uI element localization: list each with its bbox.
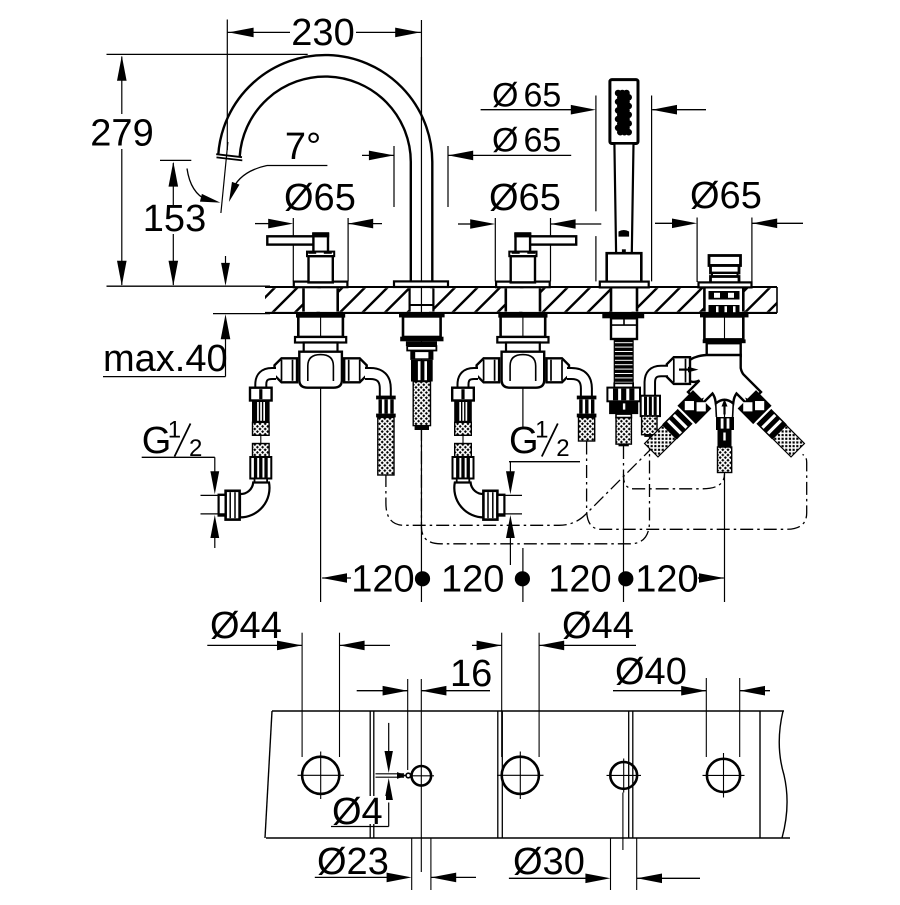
deck hole cut-out [704, 288, 743, 311]
center line valve 1 [320, 313, 322, 602]
plan strip joint lines 2 [497, 711, 499, 838]
pilot hole O4 [406, 773, 411, 778]
valve cap body [511, 256, 535, 282]
valve 1 right port hex nut [344, 358, 367, 382]
hand shower handle button [619, 230, 630, 237]
valve cap band [307, 252, 334, 257]
valve 1 left lower hex [250, 457, 271, 479]
valve 2 left elbow [463, 374, 478, 390]
hand shower hose braid [616, 418, 631, 445]
svg-text:120: 120 [635, 559, 698, 601]
hole 2 O23 [412, 766, 432, 786]
plan strip right break wavy line [779, 711, 787, 838]
spout centre line inside tube [420, 57, 422, 282]
deck hole cut-out [611, 288, 637, 311]
spout flex hose braid [413, 382, 430, 426]
diverter centre union nut [716, 417, 734, 430]
diverter left branch flow arrow [696, 395, 707, 406]
valve 2 G1/2 elbow [454, 483, 483, 518]
svg-text:Ø65: Ø65 [690, 175, 762, 217]
hand shower threaded tail (thread) [614, 339, 633, 383]
diverter left port hose braid [642, 416, 657, 435]
angle 7 degrees arc right [232, 166, 268, 193]
center line diverter [724, 313, 726, 602]
deck mounting surface (hatched section) [265, 288, 777, 312]
valve cap band [509, 252, 536, 257]
svg-text:230: 230 [291, 12, 354, 54]
svg-text:1: 1 [535, 417, 548, 444]
svg-text:Ø4: Ø4 [332, 791, 383, 833]
valve escutcheon [294, 282, 348, 288]
valve 1 G1/2 elbow [240, 483, 269, 518]
valve mounting nut flange [295, 337, 346, 343]
svg-text:Ø40: Ø40 [615, 651, 687, 693]
svg-text:1: 1 [168, 417, 181, 444]
dimension max.40 upper arrow [225, 256, 227, 266]
plan strip top edge [272, 710, 784, 712]
svg-text:Ø: Ø [492, 77, 518, 115]
spout supply nipple hex [411, 360, 433, 382]
svg-text:120: 120 [351, 559, 414, 601]
diverter left branch braided hose [645, 425, 677, 457]
svg-text:16: 16 [450, 653, 492, 695]
center line valve 2 [522, 388, 524, 428]
svg-text:65: 65 [524, 77, 562, 115]
valve mounting nut flange [497, 337, 548, 343]
diverter body neck [707, 343, 741, 356]
hose braided section [378, 417, 394, 475]
valve body [502, 352, 545, 388]
diverter knob [709, 256, 741, 266]
svg-text:Ø65: Ø65 [489, 177, 561, 219]
valve lever neck [313, 234, 328, 252]
valve shank centre line [522, 318, 524, 338]
valve 2 left port hex nut [477, 358, 500, 382]
spout escutcheon extension lines [393, 146, 395, 207]
valve 2 left connection chain [452, 388, 474, 401]
valve 2 left lower hex [453, 457, 474, 479]
hole 4 centre line lower [622, 793, 624, 851]
hole 2 centre line [420, 679, 422, 872]
center line spout [420, 20, 422, 602]
diverter shank thread in deck section [709, 291, 740, 300]
valve mounting shank [498, 313, 547, 317]
diverter body [684, 355, 761, 405]
hand shower extension lines [595, 96, 597, 212]
angle 7 degrees leader [267, 165, 327, 167]
diverter left port flow arrow [688, 367, 699, 373]
dimension 279 top reference line [107, 53, 308, 55]
diverter right branch braided hose [773, 425, 805, 457]
plan strip right straight joint [759, 711, 761, 838]
valve escutcheon [496, 282, 550, 288]
valve 1 left hose braid lower [253, 444, 270, 458]
hose routing spout to diverter left port [421, 430, 649, 544]
hand shower holder base plate [600, 282, 649, 288]
hand shower spray face dots [615, 90, 622, 97]
center line hand shower [623, 474, 625, 602]
plan strip left break line [265, 711, 272, 838]
valve 1 left ribbed adapter [252, 401, 270, 423]
deck hole cut-out [506, 288, 540, 311]
plan strip joint lines 1 [369, 711, 371, 838]
spout escutcheon [394, 281, 448, 287]
valve lever bar [528, 236, 576, 244]
valve 1 right elbow [365, 374, 385, 397]
diverter left branch union nut [677, 390, 711, 424]
svg-text:120: 120 [441, 559, 504, 601]
valve 1 left hose link line [260, 435, 262, 443]
diverter mounting shank [700, 313, 749, 317]
valve lever neck [516, 234, 531, 252]
svg-text:279: 279 [90, 113, 153, 155]
valve 2 G1/2 threaded end [483, 491, 497, 520]
deck bottom extension line (left) [213, 313, 270, 315]
hand shower head [610, 80, 638, 144]
svg-text:120: 120 [548, 559, 611, 601]
diverter mounting flange [703, 339, 746, 343]
valve 2 right port hex nut [547, 358, 570, 382]
hose coupling nut [376, 396, 396, 400]
valve body neck [506, 343, 540, 352]
svg-text:153: 153 [143, 198, 206, 240]
svg-text:Ø30: Ø30 [513, 841, 585, 883]
dimension row 120 spacing [322, 577, 351, 579]
dimension O4 pilot hole [376, 773, 405, 775]
diverter escutcheon [699, 282, 752, 287]
spout hose end [415, 426, 429, 430]
svg-text:7°: 7° [285, 126, 321, 168]
svg-text:2: 2 [556, 435, 569, 462]
diverter right branch flow arrow [743, 395, 754, 406]
svg-text:2: 2 [189, 435, 202, 462]
hand shower hose nut [607, 388, 640, 402]
hose braided section [579, 417, 595, 441]
valve 2 left hose braid lower [455, 444, 472, 458]
spout mounting nut flange [400, 337, 443, 342]
valve 1 left connection chain [250, 388, 272, 401]
valve cartridge dome [308, 355, 334, 381]
diverter right branch union nut [738, 390, 772, 424]
angle 7 degrees arc left [187, 169, 207, 201]
valve 1 left hose braid upper [253, 422, 270, 435]
diverter left port hose hex [641, 396, 660, 416]
deck hole cut-out spout [409, 288, 435, 311]
plan strip joint lines 3 [628, 711, 630, 838]
diverter left branch threaded adapter [662, 409, 692, 439]
svg-text:65: 65 [524, 122, 562, 160]
valve lever bar [267, 236, 315, 244]
diverter centre threaded adapter [718, 430, 732, 447]
valve body [299, 352, 342, 388]
svg-text:max.40: max.40 [103, 338, 228, 380]
deck top extension line (left) [107, 285, 271, 287]
svg-text:Ø: Ø [492, 122, 518, 160]
diverter shank centre line [724, 318, 726, 340]
valve mounting shank [296, 313, 345, 317]
diverter extension lines [696, 218, 698, 283]
spout gooseneck tube [229, 66, 422, 287]
spout outlet cut face [214, 153, 247, 178]
dimension 230 line [227, 31, 290, 33]
dimension 153 [172, 163, 174, 205]
plan strip bottom edge [266, 837, 790, 839]
diverter throat side walls [715, 403, 718, 417]
hole 4 O30 [610, 762, 637, 789]
valve 2 left hose link line [462, 435, 464, 443]
valve 2 left ribbed adapter [454, 401, 472, 423]
hand shower handle [614, 144, 633, 254]
hand shower shank below deck [602, 313, 644, 318]
valve cap body [309, 256, 333, 282]
dimension 153 reference line at outlet [160, 159, 191, 161]
svg-text:Ø23: Ø23 [317, 841, 389, 883]
diverter right branch threaded adapter [756, 409, 786, 439]
valve 1 G1/2 threaded end [226, 491, 240, 520]
diverter centre flow arrow [722, 399, 728, 407]
hole 5 O40 [707, 759, 740, 792]
valve 1 extension lines [292, 218, 294, 236]
valve 1 left port hex nut [275, 358, 298, 382]
svg-text:Ø65: Ø65 [284, 177, 356, 219]
hose routing hand shower to diverter centre [624, 446, 725, 489]
hand shower holder [607, 253, 642, 282]
valve 2 right elbow [567, 374, 586, 397]
spout mounting shank below deck [399, 313, 445, 317]
diverter left port hex [667, 357, 690, 384]
diverter centre hose braid [718, 447, 732, 473]
valve 1 left elbow [261, 374, 276, 390]
diverter left port elbow [650, 371, 668, 397]
hose routing valve1 to diverter left branch [386, 448, 652, 525]
valve cartridge dome [510, 355, 536, 381]
hose coupling nut [577, 396, 597, 400]
valve body neck [304, 343, 338, 352]
deck hole cut-out [304, 288, 338, 311]
valve 2 extension lines [494, 218, 496, 281]
svg-text:Ø44: Ø44 [562, 605, 634, 647]
dimension 230 extension line left / 7-degree reference [226, 20, 228, 151]
hose routing valve2 to diverter right branch [587, 442, 807, 530]
dimension 279 [121, 57, 123, 115]
hole 1 O44 [302, 757, 339, 794]
valve 2 left hose braid upper [455, 422, 472, 435]
hole 3 O44 [502, 757, 539, 794]
valve shank centre line [320, 318, 322, 338]
svg-text:Ø44: Ø44 [210, 605, 282, 647]
